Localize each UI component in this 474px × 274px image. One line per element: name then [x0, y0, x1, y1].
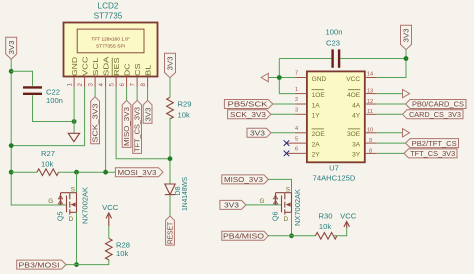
capacitor C23 100n: [326, 27, 343, 67]
hier label MISO_3V3 bottom: [222, 175, 269, 184]
svg-text:3OE: 3OE: [347, 131, 361, 138]
wire PB4/MISO net: [268, 235, 315, 237]
svg-text:TFT 128x160 1.8": TFT 128x160 1.8": [91, 37, 129, 43]
LCD2 pin 6 DC: [119, 64, 131, 88]
svg-text:3V3: 3V3: [143, 108, 152, 122]
global label 3V3 on BL vertical: [143, 100, 152, 123]
svg-text:3V3: 3V3: [250, 129, 265, 138]
svg-text:U7: U7: [329, 163, 339, 172]
svg-text:1: 1: [67, 83, 74, 87]
transistor Q5 NX7002AK: [48, 187, 89, 225]
svg-text:NX7002AK: NX7002AK: [81, 187, 90, 224]
wire LCD SDA pin down: [105, 87, 107, 172]
hier label PB3/MOSI: [17, 260, 66, 269]
svg-text:SCK_3V3: SCK_3V3: [230, 110, 266, 119]
wire PB3/MOSI net: [66, 260, 109, 265]
global label 3V3 above R29: [165, 53, 176, 77]
svg-text:SCK_3V3: SCK_3V3: [91, 104, 100, 143]
svg-text:LCD2: LCD2: [98, 2, 119, 11]
hier label PB2/TFT_CS: [406, 139, 459, 148]
U7 pin 5: [287, 136, 307, 143]
resistor R29 10k: [167, 97, 192, 119]
wire pin13: [377, 93, 403, 95]
U7 pin 9: [365, 138, 377, 144]
junction SDA-MOSI: [103, 170, 108, 175]
wire pin12: [377, 103, 406, 105]
wire 3V3 to U7 VCC: [377, 50, 406, 78]
junction Q5 source: [74, 170, 79, 175]
hier label MISO_3V3 vertical: [122, 100, 131, 147]
power flag 3V3 top-right: [401, 25, 412, 49]
svg-text:2: 2: [295, 97, 298, 103]
svg-text:1: 1: [295, 87, 298, 93]
wire LCD CS pin: [136, 87, 138, 100]
wire R29 top lead: [169, 78, 171, 98]
svg-text:S: S: [286, 187, 290, 194]
hier arrow gnd left: [261, 73, 268, 81]
svg-text:BL: BL: [145, 64, 152, 76]
LCD2 pin 7 CS: [130, 63, 142, 87]
svg-text:DC: DC: [124, 64, 131, 77]
wire LCD SCL pin: [94, 87, 96, 97]
svg-text:13: 13: [367, 89, 373, 95]
svg-text:R29: R29: [178, 99, 192, 108]
svg-text:4A: 4A: [352, 102, 361, 109]
wire D8 to RESET: [169, 195, 171, 216]
svg-text:7: 7: [130, 83, 137, 87]
wire R30 right to VCC: [333, 228, 347, 236]
wire C23 left: [279, 58, 331, 60]
U7 pin 3: [295, 108, 307, 115]
ground symbol: [68, 133, 79, 141]
wire pin10: [377, 132, 403, 134]
U7 pin 14: [365, 71, 377, 77]
svg-text:TFT_CS_3V3: TFT_CS_3V3: [410, 149, 455, 158]
buffer IC U7 74AHC125D: [307, 71, 365, 182]
no-connect pin 6: [284, 151, 290, 157]
U7 pin 12: [365, 99, 377, 105]
wire pin4: [271, 132, 295, 134]
LCD2 pin 3 SCL: [88, 57, 100, 87]
resistor R27 10k: [37, 149, 58, 176]
svg-text:8: 8: [140, 83, 147, 87]
svg-text:G: G: [260, 198, 265, 205]
svg-text:10: 10: [367, 128, 373, 134]
junction reset net: [168, 156, 173, 161]
junction PB3 net: [74, 262, 79, 267]
junction GND net: [72, 119, 77, 124]
svg-text:10k: 10k: [41, 159, 53, 168]
junction rail-MOSI wire: [9, 170, 14, 175]
svg-text:3: 3: [295, 108, 298, 114]
U7 pin 6: [287, 147, 307, 154]
power flag 3V3 top-left: [6, 37, 17, 59]
svg-text:100n: 100n: [326, 27, 343, 36]
svg-text:S: S: [71, 187, 75, 194]
svg-text:NX7002AK: NX7002AK: [293, 189, 302, 226]
svg-text:1A: 1A: [312, 102, 321, 109]
wire 3V3 rail: [11, 59, 66, 205]
svg-text:VCC: VCC: [340, 212, 357, 221]
wire LCD VCC pin to rail: [11, 87, 84, 146]
wire Q6 gate: [246, 204, 282, 206]
no-connect pin 5: [284, 140, 290, 146]
svg-text:PB2/TFT_CS: PB2/TFT_CS: [412, 139, 457, 148]
hier label CARD_CS_3V3: [403, 110, 464, 119]
hier label SCK_3V3 at U7: [228, 110, 271, 119]
svg-text:9: 9: [369, 138, 372, 144]
svg-text:G: G: [48, 198, 53, 205]
wire LCD BL pin: [147, 87, 149, 100]
svg-text:VCC: VCC: [102, 203, 119, 212]
svg-text:RESET: RESET: [166, 222, 175, 244]
svg-text:6: 6: [119, 83, 126, 87]
junction rail-C22: [9, 69, 14, 74]
svg-text:2A: 2A: [312, 141, 321, 148]
power symbol VCC right: [340, 212, 357, 229]
capacitor C22 100n: [23, 87, 63, 104]
wire LCD GND pin down: [73, 87, 75, 133]
svg-text:3V3: 3V3: [7, 41, 16, 55]
transistor Q6 NX7002AK: [260, 187, 303, 227]
wire Q5 drain down: [76, 212, 78, 264]
svg-text:2Y: 2Y: [312, 152, 321, 159]
hier label PB0/CARD_CS: [406, 100, 467, 109]
svg-text:5: 5: [295, 136, 298, 142]
svg-text:14: 14: [367, 71, 373, 77]
svg-text:R27: R27: [41, 149, 55, 158]
hier label TFT_CS_3V3 vertical: [133, 100, 142, 153]
hier label MOSI_3V3: [115, 168, 163, 177]
svg-text:MISO_3V3: MISO_3V3: [122, 107, 131, 146]
svg-text:12: 12: [367, 99, 373, 105]
diode D8 1N4148WS: [165, 177, 189, 211]
wire pin9: [377, 142, 406, 144]
power symbol VCC left: [102, 203, 119, 226]
hier label PB5/SCK: [224, 100, 272, 109]
svg-text:D: D: [284, 216, 289, 223]
junction PB4 net: [289, 233, 294, 238]
svg-text:1OE: 1OE: [312, 92, 326, 99]
svg-text:3V3: 3V3: [166, 57, 175, 71]
svg-text:SDA: SDA: [103, 56, 110, 76]
svg-text:CARD_CS_3V3: CARD_CS_3V3: [409, 110, 461, 119]
svg-text:3V3: 3V3: [224, 201, 239, 210]
U7 pin 13: [365, 89, 377, 95]
svg-text:4: 4: [295, 126, 298, 132]
wire R27 left lead: [11, 171, 37, 173]
U7 pin 1: [295, 87, 307, 94]
wire R27 right to MOSI_3V3: [59, 171, 116, 173]
LCD2 pin 2 VCC: [77, 57, 89, 88]
svg-text:CS: CS: [135, 63, 142, 76]
svg-text:4OE: 4OE: [347, 92, 361, 99]
LCD2 pin 4 SDA: [98, 56, 110, 87]
svg-text:VCC: VCC: [346, 76, 360, 83]
svg-text:Q6: Q6: [270, 212, 279, 222]
svg-text:4Y: 4Y: [352, 113, 361, 120]
svg-text:2OE: 2OE: [312, 131, 326, 138]
svg-text:PB0/CARD_CS: PB0/CARD_CS: [412, 100, 464, 109]
svg-text:GND: GND: [72, 57, 79, 76]
wire Q5 source up: [76, 172, 78, 193]
wire Q6 drain down: [291, 212, 293, 236]
svg-text:RES: RES: [114, 57, 121, 76]
svg-text:ST7735: ST7735: [94, 11, 123, 20]
svg-text:1N4148WS: 1N4148WS: [182, 177, 189, 211]
hier arrow pin13: [403, 89, 410, 97]
U7 pin 8: [365, 148, 377, 154]
LCD2 pin 8 BL: [140, 64, 152, 87]
U7 pin 2: [295, 97, 307, 104]
wire pin3: [271, 113, 295, 115]
svg-text:100n: 100n: [46, 96, 63, 105]
svg-text:Q5: Q5: [55, 212, 64, 222]
svg-text:10k: 10k: [178, 110, 190, 119]
svg-text:D: D: [69, 216, 74, 223]
wire C22 top branch: [11, 71, 32, 86]
hier label RESET vertical: [166, 216, 175, 245]
svg-text:VCC: VCC: [82, 57, 89, 77]
svg-text:MISO_3V3: MISO_3V3: [224, 175, 263, 184]
svg-text:C23: C23: [326, 38, 340, 47]
wire LCD DC pin: [126, 87, 128, 100]
global label 3V3 at pin4: [247, 128, 271, 137]
svg-text:8: 8: [369, 148, 372, 154]
svg-text:5: 5: [109, 83, 116, 87]
wire LCD RES pin to reset net: [116, 87, 170, 159]
svg-text:2: 2: [77, 83, 84, 87]
hier arrow pin10: [403, 129, 410, 137]
svg-text:4: 4: [98, 83, 105, 87]
resistor R28 10k: [106, 238, 130, 260]
junction rail-VCC: [9, 143, 14, 148]
svg-text:10k: 10k: [116, 249, 128, 258]
wire pin8: [377, 152, 404, 154]
LCD display LCD2 ST7735: [64, 2, 158, 77]
svg-text:7: 7: [295, 71, 298, 77]
wire C23 right: [340, 58, 406, 60]
U7 pin 10: [365, 128, 377, 134]
wire C22 bottom to GND net: [33, 95, 75, 121]
resistor R30 10k: [315, 212, 337, 240]
svg-text:MOSI_3V3: MOSI_3V3: [118, 168, 157, 177]
svg-text:R30: R30: [319, 212, 333, 221]
wire pin2: [273, 103, 295, 105]
hier label SCK_3V3 vertical: [91, 97, 100, 144]
svg-text:PB4/MISO: PB4/MISO: [223, 232, 264, 241]
svg-text:PB5/SCK: PB5/SCK: [228, 100, 268, 109]
svg-text:6: 6: [295, 147, 298, 153]
wire pin11: [377, 113, 403, 115]
svg-text:SCL: SCL: [93, 57, 100, 76]
junction U7 gnd: [277, 75, 282, 80]
svg-text:74AHC125D: 74AHC125D: [313, 174, 356, 183]
svg-text:1Y: 1Y: [312, 113, 321, 120]
junction 3V3-C23: [404, 56, 409, 61]
hier label PB4/MISO: [222, 231, 269, 240]
svg-text:3V3: 3V3: [402, 29, 411, 43]
wire GND net U7: [268, 59, 295, 94]
U7 pin 11: [365, 109, 377, 115]
svg-text:10k: 10k: [319, 222, 331, 231]
U7 pin 4: [295, 126, 307, 133]
hier label TFT_CS_3V3: [404, 149, 457, 158]
svg-text:TFT_CS_3V3: TFT_CS_3V3: [133, 107, 142, 152]
U7 pin 7: [295, 71, 307, 78]
LCD2 pin 1 GND: [67, 57, 79, 87]
svg-text:3Y: 3Y: [352, 152, 361, 159]
svg-text:3: 3: [88, 83, 95, 87]
global label 3V3 at Q6 gate: [220, 200, 246, 209]
svg-text:11: 11: [367, 109, 373, 115]
wire R29 bottom to D8: [169, 118, 171, 184]
wire R28 top: [108, 226, 110, 238]
svg-text:ST7735S SPI: ST7735S SPI: [96, 43, 125, 49]
svg-text:PB3/MOSI: PB3/MOSI: [19, 260, 60, 269]
svg-text:3A: 3A: [352, 141, 361, 148]
wire MISO_3V3 to Q6 source: [268, 179, 291, 192]
LCD2 pin 5 RES: [109, 57, 121, 87]
svg-text:GND: GND: [312, 76, 327, 83]
